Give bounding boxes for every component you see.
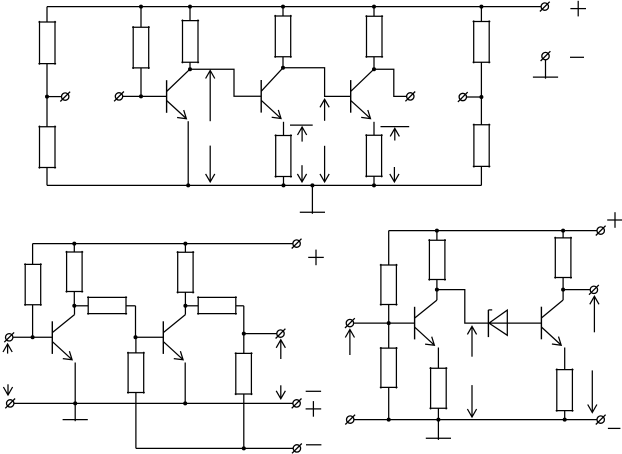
resistor R18 (Q6 base upper): [380, 231, 398, 324]
resistor R5 (Q2 collector load): [274, 5, 292, 68]
resistor R16 (feedback Q5): [185, 296, 243, 333]
resistor R13 (feedback Q4): [74, 296, 135, 337]
wire Q3 collector to output: [374, 69, 407, 96]
terminal supply+ (bottom-right circuit): [596, 226, 606, 236]
arrow output up (bottom-left): [276, 340, 285, 359]
wire Q6 emitter lead: [437, 348, 439, 369]
terminal input (Q1 base): [114, 92, 167, 102]
wire top supply rail (bottom-left circuit): [33, 243, 293, 245]
resistor R9 (right divider upper): [473, 5, 491, 97]
label - (top supply): [570, 56, 584, 58]
label + (bottom-left supply): [308, 250, 324, 266]
resistor R20 (Q6 collector load): [428, 229, 446, 290]
transistor Q1: [167, 69, 190, 119]
transistor Q6: [415, 290, 437, 346]
wire Q1 emitter to rail: [187, 121, 189, 185]
terminal output (bottom-right circuit): [589, 285, 599, 295]
arrow output up (bottom-right): [590, 296, 599, 332]
node R19 on bottom rail: [387, 418, 391, 422]
wire top supply rail (top circuit): [47, 6, 541, 8]
resistor R3 (base feed Q1): [132, 5, 150, 97]
resistor R8 (Q3 emitter): [365, 134, 382, 185]
arrow mid up (bottom-right): [467, 326, 476, 356]
resistor R10 (right divider lower): [473, 97, 491, 185]
resistor R15 (Q5 collector load): [177, 242, 195, 306]
arrow up (Q2 emitter voltage): [298, 127, 307, 142]
resistor R23 (Q7 emitter): [556, 369, 574, 420]
resistor R4 (Q1 collector load): [181, 5, 199, 70]
transistor Q3: [351, 69, 374, 118]
wire output (bottom-right): [563, 289, 590, 291]
wire Q7 emitter lead: [564, 348, 566, 370]
terminal common right (bottom-left circuit): [292, 399, 302, 409]
wire Q1 collector to Q2 base: [190, 69, 261, 96]
arrow input up (bottom-left): [3, 344, 12, 354]
bar marker (Q3 emitter voltage): [381, 126, 410, 128]
arrow V1 up (stage 1 voltage): [206, 71, 215, 122]
terminal output (bottom-left circuit): [276, 329, 286, 339]
node C (Q1 collector): [188, 67, 192, 71]
terminal output (top circuit): [405, 92, 415, 102]
node N (Q7 collector): [561, 288, 565, 292]
bar marker (Q2 emitter voltage): [290, 124, 313, 126]
label - (bottom-right supply): [608, 427, 621, 429]
wire output (bottom-left): [244, 333, 277, 335]
resistor R14 (Q5 base return): [127, 337, 145, 448]
wire mid rail (bottom-left circuit): [14, 402, 293, 404]
terminal supply+ (bottom-left circuit): [292, 239, 302, 249]
label - (bottom-left mid): [306, 390, 321, 392]
wire Q2 collector to Q3 base: [283, 68, 351, 97]
arrow output down (bottom-right): [588, 370, 597, 412]
label + (bottom-left mid): [306, 401, 322, 417]
label - (bottom-left bottom): [306, 444, 321, 446]
diode D1: [488, 310, 541, 337]
resistor R21 (Q6 emitter): [430, 367, 448, 420]
terminal VEE- with ground (top right): [533, 51, 558, 78]
arrow V1 down (stage 1 voltage): [206, 146, 215, 182]
wire Q5 emitter down: [184, 363, 186, 404]
node D (Q2 collector): [281, 66, 285, 70]
wire top supply rail (bottom-right circuit): [389, 230, 597, 232]
arrow input up (bottom-right): [345, 330, 354, 356]
resistor R12 (Q4 collector load): [66, 242, 84, 306]
resistor R11 (Q4 base bias): [24, 244, 42, 338]
terminal input (bottom-right circuit): [345, 318, 415, 328]
resistor R2 (lower left): [38, 97, 56, 186]
label + (top supply): [570, 1, 586, 17]
node F (right divider tap): [479, 95, 483, 99]
node Q5 emitter on mid rail: [183, 401, 187, 405]
terminal bottom-left of rail (bottom-right circuit): [345, 415, 355, 425]
node A (R1/R2 junction): [45, 95, 49, 99]
arrow output down (bottom-left): [276, 385, 285, 399]
ground (bottom-right circuit): [426, 420, 451, 440]
resistor R6 (Q2 emitter): [275, 134, 292, 185]
transistor Q5: [163, 306, 185, 360]
node M (Q6 collector): [435, 288, 439, 292]
node Q6 emitter on rail: [436, 418, 440, 422]
arrow V2 down (stage 2 voltage): [320, 146, 329, 182]
node Q2 emitter on rail: [282, 183, 286, 187]
ground (bottom-left circuit): [63, 403, 88, 421]
wire Q3 emitter lead: [373, 122, 375, 136]
arrow up (Q3 emitter voltage): [390, 128, 399, 140]
resistor R19 (Q6 base lower): [380, 323, 398, 420]
resistor R17 (output load): [235, 334, 253, 449]
node Q1 emitter on rail: [186, 183, 190, 187]
node L (Q6 base): [387, 321, 391, 325]
ground (top circuit): [300, 183, 325, 213]
resistor R1 (upper left): [38, 7, 56, 97]
wire bottom rail (bottom-left circuit): [136, 447, 293, 449]
terminal input (bottom-left circuit): [4, 332, 52, 342]
wire Q4 emitter down: [74, 363, 76, 404]
node G (Q4 base): [31, 335, 35, 339]
arrow down (Q3 emitter voltage): [390, 167, 399, 182]
wire bottom rail (bottom-right circuit): [354, 419, 597, 421]
wire Q6 collector to diode: [437, 290, 489, 324]
arrow down (Q2 emitter voltage): [297, 165, 306, 182]
resistor R7 (Q3 collector load): [365, 5, 383, 70]
terminal VCC+ (top right): [540, 2, 550, 12]
terminal supply- (bottom-left circuit): [292, 444, 302, 454]
node Q4 emitter on mid rail: [73, 401, 77, 405]
wire Q5 base: [136, 336, 164, 338]
terminal bias tap (left): [47, 92, 70, 102]
transistor Q7: [541, 290, 563, 346]
resistor R22 (Q7 collector load): [554, 229, 572, 290]
node Q3 emitter on rail: [372, 183, 376, 187]
node E (Q3 collector): [372, 67, 376, 71]
terminal tap (right divider): [458, 92, 482, 102]
wire Q2 emitter lead: [283, 122, 285, 136]
node H (Q4 collector): [72, 304, 76, 308]
terminal common left (bottom-left circuit): [5, 399, 15, 409]
node Q7 emitter on rail: [563, 418, 567, 422]
node I (Q5 base): [134, 335, 138, 339]
node B (Q1 base): [139, 94, 143, 98]
transistor Q2: [261, 68, 283, 119]
terminal supply- (bottom-right circuit): [596, 415, 606, 425]
arrow input down (bottom-left): [3, 384, 12, 395]
wire bottom rail (top circuit): [47, 184, 481, 186]
node J (Q5 collector): [183, 304, 187, 308]
node K (output node): [242, 332, 246, 336]
label + (bottom-right supply): [607, 212, 622, 228]
transistor Q4: [52, 306, 74, 360]
arrow V2 up (stage 2 voltage): [320, 99, 329, 121]
node R17 on bottom rail: [242, 446, 246, 450]
arrow mid down (bottom-right): [467, 385, 476, 417]
